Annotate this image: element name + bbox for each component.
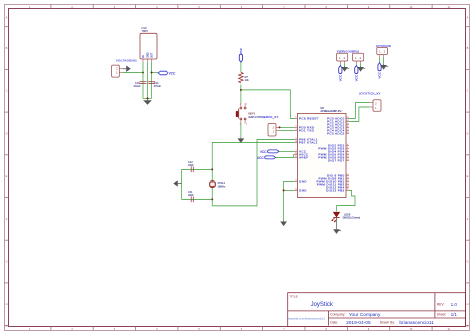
vcc flag VCC (pin7) (260, 150, 279, 154)
wire KEY1 to ground (240, 124, 242, 138)
svg-text:A: A (6, 324, 8, 328)
connector JOYSTICKB (376, 44, 391, 57)
wire OUT down (151, 62, 153, 98)
wire JOYSTICKB to ground (383, 57, 385, 64)
svg-text:E: E (467, 174, 469, 178)
connector YSERVO header (337, 50, 348, 64)
wire SERVO_XY to PD0 (279, 126, 295, 128)
svg-text:1: 1 (240, 103, 241, 105)
wire JOYSTICK_XY pin2 to ADC0 (349, 103, 370, 119)
crystal XTAL2 16MHz (210, 181, 226, 189)
svg-text:REV:: REV: (437, 302, 445, 306)
ground (122, 65, 130, 72)
wire GND22 (284, 189, 295, 191)
svg-text:4: 4 (246, 123, 247, 125)
svg-text:Drawn By:: Drawn By: (380, 321, 395, 325)
vcc flag VCC (YSERVO) (339, 66, 343, 82)
ground (280, 220, 287, 226)
svg-text:VCC: VCC (169, 72, 176, 76)
svg-text:IN: IN (142, 55, 145, 58)
svg-text:ATMEGA328P-PU: ATMEGA328P-PU (321, 110, 342, 113)
svg-text:YSERVO: YSERVO (337, 50, 348, 54)
svg-text:JoyStick: JoyStick (311, 302, 334, 308)
svg-text:Company:: Company: (330, 313, 345, 317)
junction gnd bar (147, 97, 149, 99)
vcc flag VCC (AVCC/AREF) (257, 156, 276, 160)
ground (173, 180, 181, 187)
junction GND (283, 189, 285, 191)
capacitor C12 (188, 161, 194, 172)
svg-text:1.0: 1.0 (451, 302, 458, 307)
svg-text:D: D (467, 131, 469, 135)
svg-text:A: A (467, 16, 469, 20)
wire crystal to bottom (211, 187, 213, 206)
capacitor C11 (188, 191, 194, 202)
svg-text:H: H (467, 302, 469, 306)
wire JOYSTICKB to VCC (379, 57, 381, 63)
svg-text:470uF: 470uF (154, 85, 162, 88)
svg-text:22pF: 22pF (188, 194, 194, 197)
regulator U10 7805 (140, 26, 157, 62)
wire LED to ground (336, 218, 338, 229)
svg-text:brianascencio11: brianascencio11 (399, 320, 434, 326)
mcu U8 ATMEGA328P-PU (295, 107, 350, 198)
svg-text:2019-04-05: 2019-04-05 (346, 320, 371, 326)
wire XSERVO to ground (360, 64, 362, 66)
svg-text:DIG7 PD7: DIG7 PD7 (328, 158, 345, 162)
svg-text:B: B (467, 46, 469, 50)
svg-text:VCC: VCC (355, 74, 359, 81)
svg-text:2: 2 (246, 103, 247, 105)
junction node OUT (151, 72, 153, 74)
svg-text:G: G (466, 259, 468, 263)
svg-text:Your Company: Your Company (349, 312, 381, 318)
svg-text:Sheet:: Sheet: (437, 313, 447, 317)
connector XSERVO header (348, 50, 364, 64)
svg-text:A: A (6, 16, 8, 20)
svg-text:5M05Q (Green): 5M05Q (Green) (343, 217, 361, 220)
svg-text:GND: GND (299, 179, 307, 183)
ground (143, 99, 152, 105)
svg-text:Date:: Date: (330, 321, 338, 325)
svg-text:VCC: VCC (239, 47, 243, 54)
svg-text:C: C (6, 89, 8, 93)
svg-text:G: G (5, 259, 7, 263)
svg-text:easyeda.com/brianascencio11: easyeda.com/brianascencio11 (288, 316, 326, 320)
wire VOLTAGEIN to IN (122, 72, 143, 74)
svg-text:22pF: 22pF (188, 164, 194, 167)
wire VCC to AREF (276, 156, 295, 158)
svg-text:E: E (6, 174, 8, 178)
junction node IN (142, 72, 144, 74)
junction node RESET (240, 89, 242, 91)
resistor R7 10k (239, 72, 250, 82)
svg-text:PC5 ADC5: PC5 ADC5 (327, 131, 344, 135)
ground (357, 66, 365, 72)
svg-text:D: D (6, 131, 8, 135)
svg-text:VCC: VCC (378, 71, 382, 78)
connector SERVO_XY (262, 115, 280, 136)
wire cap rail (181, 169, 183, 199)
wire XSERVO to VCC (355, 64, 357, 66)
wire VCC to pin7 (279, 150, 295, 152)
wire R7 to KEY1 (240, 84, 242, 103)
svg-text:VCC: VCC (257, 156, 264, 160)
vcc flag VCC (239, 47, 243, 62)
svg-text:16MHz: 16MHz (218, 185, 227, 188)
wire to C11 (182, 198, 213, 200)
ground (333, 228, 341, 234)
ground (380, 64, 388, 70)
svg-text:JOYSTICKB: JOYSTICKB (376, 44, 391, 48)
svg-text:H: H (6, 302, 8, 306)
capacitor C14 (148, 82, 161, 88)
title block (288, 293, 466, 327)
svg-text:470uF: 470uF (133, 85, 141, 88)
vcc flag VCC (158, 71, 176, 75)
vcc flag VCC (XSERVO) (355, 66, 359, 82)
ground (238, 137, 245, 143)
svg-text:AREF: AREF (299, 155, 308, 159)
wire OUT to VCC (152, 72, 159, 74)
wire GND8 down (284, 181, 295, 220)
svg-text:3: 3 (240, 123, 241, 125)
wire DIG13 to LED (337, 190, 356, 211)
connector JOYSTICK_XY (359, 91, 381, 111)
svg-text:JOYSTICK_XY: JOYSTICK_XY (359, 91, 381, 95)
svg-text:VOLTAGEIN1: VOLTAGEIN1 (116, 58, 137, 62)
wire JOYSTICK_XY pin1 to ADC1 (349, 107, 370, 121)
ground (341, 66, 349, 72)
wire GND down (147, 62, 149, 98)
svg-text:XSERVO: XSERVO (348, 50, 359, 54)
wire SERVO_XY to PD1 (279, 129, 295, 131)
svg-text:OUT: OUT (150, 52, 153, 58)
svg-text:C: C (467, 89, 469, 93)
wire XTAL1 loop (212, 139, 294, 206)
svg-text:DIG13 PB5: DIG13 PB5 (326, 188, 344, 192)
svg-text:A: A (467, 324, 469, 328)
capacitor C10 (133, 82, 146, 88)
svg-text:GND: GND (299, 188, 307, 192)
svg-text:VCC: VCC (339, 74, 343, 81)
svg-text:PB7 XTAL2: PB7 XTAL2 (299, 140, 318, 144)
svg-text:1/1: 1/1 (451, 312, 458, 317)
wire gnd bar (143, 97, 152, 99)
svg-text:VCC: VCC (260, 150, 267, 154)
led LED9 5M05Q (Green) (331, 212, 360, 222)
svg-text:TITLE:: TITLE: (290, 294, 299, 298)
svg-text:PD1 TXD: PD1 TXD (299, 128, 315, 132)
svg-text:B: B (6, 46, 8, 50)
wire RESET to PC6 (241, 90, 295, 119)
wire to C12 (182, 168, 213, 170)
wire XTAL2 to crystal (212, 142, 294, 181)
svg-text:KEY1: KEY1 (248, 112, 255, 116)
svg-text:7805: 7805 (142, 29, 149, 33)
junction crystal top (211, 168, 213, 170)
wire branch to AVCC (293, 154, 296, 157)
svg-text:PC6 RESET: PC6 RESET (299, 116, 319, 120)
vcc flag VCC (JOYSTICKB) (378, 63, 382, 79)
switch KEY1 6x6H4.3TM (236, 103, 262, 125)
junction (279, 126, 281, 128)
wire YSERVO to VCC (339, 64, 341, 66)
wire IN down (142, 62, 144, 98)
connector VOLTAGEIN1 (112, 58, 138, 77)
junction crystal bottom (211, 198, 213, 200)
wire YSERVO to ground (344, 64, 346, 66)
wire VCC to R7 (240, 62, 242, 72)
svg-text:6x6H4.3TM: 6x6H4.3TM (248, 116, 261, 119)
svg-text:SERVO_XY: SERVO_XY (262, 115, 279, 119)
svg-text:GND: GND (146, 52, 149, 58)
